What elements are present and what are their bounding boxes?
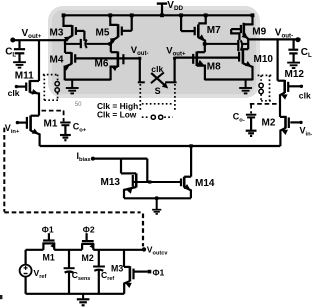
wire source bus left — [65, 78, 111, 80]
label M4 — [50, 55, 64, 66]
wire bottom rail segment2 — [54, 249, 82, 251]
transistor M1 — [16, 116, 40, 147]
node tail M14 junction — [189, 144, 192, 147]
node rail junction x205.7 — [204, 13, 208, 17]
wire bottom rail segment3 — [93, 249, 144, 251]
svg-text:M9: M9 — [252, 27, 266, 38]
label Vref — [34, 268, 47, 280]
wire bias source bus — [124, 197, 191, 199]
voltage source Vref — [20, 250, 32, 294]
transistor M9 — [231, 15, 252, 49]
svg-text:Vin-: Vin- — [300, 126, 313, 138]
label Voutcv — [147, 245, 169, 257]
VDD label — [167, 0, 183, 12]
node bias bus — [155, 196, 159, 200]
capacitor CL right — [288, 39, 298, 62]
svg-text:Voutcv: Voutcv — [147, 245, 169, 257]
label clk left — [8, 88, 20, 98]
label Vin+ — [5, 123, 20, 135]
label Vin- — [300, 126, 313, 138]
label Cref — [101, 270, 114, 282]
capacitor Cref — [93, 250, 105, 294]
transistor M2 — [280, 116, 303, 146]
label CL right — [301, 47, 312, 59]
wire dashed Vin+ down — [3, 128, 5, 212]
label M3 bottom — [111, 264, 123, 274]
edge mark — [0, 295, 2, 299]
svg-text:Φ1: Φ1 — [42, 225, 54, 235]
wire dashed to Co+ — [42, 111, 65, 122]
label M11 — [15, 71, 34, 82]
label phi1 top — [42, 225, 54, 235]
svg-text:Vref: Vref — [34, 268, 47, 280]
svg-text:clk: clk — [299, 91, 311, 101]
transistor M4 — [63, 42, 75, 80]
wire bottom ground rail — [26, 293, 125, 295]
switch open circles left — [55, 82, 59, 93]
label M9 — [252, 27, 266, 38]
wire dotted below switch right — [174, 84, 176, 111]
wire Ibias to gate line — [146, 159, 148, 182]
wire Vout- top-right — [248, 38, 300, 40]
VDD supply symbol — [157, 4, 167, 16]
node junction M7-M8 — [203, 42, 207, 46]
label Csens — [72, 270, 91, 282]
transistor M7 — [181, 15, 206, 44]
transistor M1 bottom — [42, 233, 57, 250]
label clk right — [299, 91, 311, 101]
svg-text:Co+: Co+ — [73, 122, 87, 134]
wire M3 source to cap — [65, 43, 80, 45]
transistor M8 — [193, 44, 205, 80]
svg-text:clk: clk — [8, 88, 20, 98]
ground left bus — [66, 80, 79, 94]
wire dashed bottom across — [4, 211, 140, 213]
wire M13 drain riser — [120, 159, 122, 174]
transistor M3 — [64, 15, 85, 44]
label Ibias — [77, 151, 91, 163]
wire M13 M14 gate line — [133, 181, 181, 183]
wire dashed down to Voutcv — [142, 214, 144, 247]
label M5 — [96, 28, 110, 39]
wire Vout+ top-left — [13, 39, 66, 41]
wire dotted right structure — [258, 75, 273, 100]
svg-text:clk: clk — [151, 64, 163, 74]
capacitor Co- — [246, 115, 256, 130]
ground right bus — [239, 80, 252, 94]
wire source bus right — [205, 78, 253, 80]
node rail junction x162 — [160, 13, 164, 17]
capacitor Co+ — [60, 123, 70, 135]
switch open circles legend — [151, 115, 163, 119]
svg-text:Ibias: Ibias — [77, 151, 91, 163]
ground under Co+ — [60, 134, 71, 140]
label phi2 top — [83, 225, 95, 235]
wire gates M8 M10 to Vout+ — [175, 56, 240, 58]
wire M11 to M1 column — [38, 96, 40, 116]
ground under CL right — [287, 62, 300, 68]
node Voutcv — [142, 247, 146, 251]
wire cap to M5 source — [86, 43, 110, 45]
label S — [155, 86, 161, 96]
capacitor Csens — [64, 250, 75, 294]
label Clk High — [97, 101, 138, 111]
label Co- — [233, 112, 245, 124]
ground bottom — [77, 294, 90, 306]
transistor M13 — [121, 173, 136, 198]
wire Vout+ node column — [165, 57, 176, 83]
transistor M11 — [15, 40, 39, 96]
wire dotted below switch left — [139, 84, 141, 111]
svg-text:Clk = Low: Clk = Low — [97, 110, 137, 120]
switch open circles right — [259, 83, 263, 93]
label M3 — [50, 28, 64, 39]
svg-text:M1: M1 — [43, 252, 55, 262]
ground bias — [152, 198, 161, 214]
transistor M5 — [110, 15, 132, 44]
svg-text:M14: M14 — [195, 178, 215, 189]
svg-text:Csens: Csens — [72, 270, 91, 282]
label M6 — [95, 59, 109, 70]
svg-text:M12: M12 — [285, 69, 305, 80]
svg-text:M13: M13 — [101, 177, 121, 188]
capacitor coupling right — [238, 40, 242, 51]
label M1 bottom — [43, 252, 55, 262]
label M2 bottom — [82, 253, 94, 263]
svg-text:Co-: Co- — [233, 112, 245, 124]
wire Vout- node column — [138, 57, 145, 83]
transistor M2 bottom — [81, 233, 96, 250]
label M2 — [262, 118, 276, 129]
node rail junction x181.1 — [179, 13, 183, 17]
svg-text:M5: M5 — [96, 28, 110, 39]
transistor M6 — [110, 44, 124, 80]
svg-text:M6: M6 — [95, 59, 109, 70]
transistor M12 — [278, 39, 303, 104]
svg-text:Vin+: Vin+ — [5, 123, 20, 135]
svg-text:M2: M2 — [262, 118, 276, 129]
legend dotted high — [142, 103, 173, 105]
svg-text:M3: M3 — [111, 264, 123, 274]
transistor M14 — [181, 146, 192, 198]
svg-text:Vout+: Vout+ — [22, 28, 42, 40]
label M13 — [101, 177, 121, 188]
wire M7 junction to cap right — [205, 43, 238, 45]
node rail junction x110.3 — [108, 13, 112, 17]
svg-text:M11: M11 — [15, 71, 34, 82]
svg-text:Vout-: Vout- — [275, 28, 293, 40]
svg-text:S: S — [155, 86, 161, 96]
svg-text:M4: M4 — [50, 55, 64, 66]
node Vout- terminal — [295, 37, 300, 42]
label 50 — [75, 102, 82, 108]
label Vout- inner — [131, 45, 149, 57]
wire top VDD rail — [64, 14, 253, 16]
transistor M10 — [239, 49, 253, 81]
svg-text:M10: M10 — [254, 54, 274, 65]
svg-text:M2: M2 — [82, 253, 94, 263]
label M1 — [44, 119, 58, 130]
label M7 — [207, 25, 221, 36]
node Ibias terminal — [91, 157, 95, 161]
wire dotted left structure — [43, 75, 59, 101]
node rail junction x63.5 — [62, 13, 66, 17]
label clk switch — [151, 64, 163, 74]
wire bottom rail segment1 — [26, 249, 44, 251]
capacitor CL left — [14, 40, 25, 61]
node rail junction x252.5 — [251, 13, 255, 17]
svg-text:Φ2: Φ2 — [83, 225, 95, 235]
label Vout+ inner — [166, 46, 186, 58]
wire cap right to M9 — [243, 43, 248, 45]
wire M12 to M2 column — [279, 104, 281, 117]
svg-text:Φ1: Φ1 — [153, 267, 165, 277]
label M8 — [207, 62, 221, 73]
label M10 — [254, 54, 274, 65]
node gate line junction — [148, 180, 151, 183]
label Co+ — [73, 122, 87, 134]
switch S clk — [151, 72, 170, 90]
label phi1 gate — [153, 267, 165, 277]
svg-text:M8: M8 — [207, 62, 221, 73]
svg-text:M7: M7 — [207, 25, 221, 36]
label Vout- top-right — [275, 28, 293, 40]
ground under Co- — [246, 130, 257, 136]
node rail junction x131.7 — [130, 13, 134, 17]
svg-text:VDD: VDD — [167, 0, 183, 12]
svg-text:CL: CL — [301, 47, 312, 59]
label M14 — [195, 178, 215, 189]
capacitor coupling left — [81, 39, 87, 48]
svg-text:M3: M3 — [50, 28, 64, 39]
legend dotted low — [142, 116, 173, 118]
wire tail line — [40, 145, 281, 147]
svg-text:50: 50 — [75, 102, 82, 108]
svg-text:M1: M1 — [44, 119, 58, 130]
gray switched-transconductor region — [50, 8, 258, 96]
transistor M3 bottom — [124, 250, 151, 294]
node Vout+ terminal — [10, 38, 15, 43]
wire Ibias — [93, 158, 147, 160]
node junction M5-M6 — [108, 42, 112, 46]
label M12 — [285, 69, 305, 80]
label Clk Low — [97, 110, 137, 120]
ground under CL left — [13, 62, 26, 68]
wire dashed to Co- — [250, 104, 278, 114]
label CL left — [5, 47, 16, 59]
label Vout+ top-left — [22, 28, 42, 40]
wire gates M4 M6 to Vout- — [76, 57, 140, 59]
